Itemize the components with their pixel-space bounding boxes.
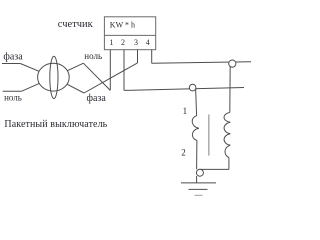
wire terminal 2 vertical [123, 50, 125, 91]
svg-text:1: 1 [183, 106, 188, 116]
wire фаза input horizontal [2, 63, 20, 65]
ground line 1 [181, 182, 216, 184]
ground line 2 [189, 188, 208, 190]
svg-text:счетчик: счетчик [58, 19, 94, 30]
svg-text:ноль: ноль [4, 93, 22, 103]
wire vertical from node to coil 2 [229, 64, 231, 112]
winding 1 (current coil) [192, 116, 199, 141]
wire terminal 3 vertical [137, 50, 139, 63]
wire bottom horizontal from terminal 2 [124, 88, 244, 91]
svg-text:2: 2 [181, 148, 186, 158]
node terminal bottom (clamp) [189, 84, 196, 91]
wire node to ground [196, 176, 198, 183]
wire фаза input diagonal [20, 64, 39, 72]
wire coil 1 to ground node [196, 140, 198, 169]
svg-text:фаза: фаза [87, 93, 107, 104]
svg-text:2: 2 [121, 38, 125, 47]
winding 2 (voltage coil) [224, 112, 230, 157]
transformer core bar [208, 115, 210, 156]
node ground junction [196, 169, 203, 176]
svg-text:KW * h: KW * h [110, 20, 135, 29]
meter box divider [104, 34, 155, 36]
wire vertical from node to coil 1 [196, 88, 197, 116]
wire ноль input diagonal [22, 83, 40, 91]
wire switch lower-right diagonal [67, 84, 84, 93]
wire switch upper-right diagonal [67, 63, 83, 70]
wire фаза bend to terminal 3 [84, 63, 138, 93]
svg-text:фаза: фаза [3, 51, 23, 62]
packet switch S1 handle [50, 56, 58, 98]
wire ноль bend to terminal 1 [83, 63, 110, 90]
svg-text:1: 1 [110, 38, 114, 47]
wire coil 2 bottom vertical [228, 158, 230, 170]
svg-text:ноль: ноль [84, 51, 102, 61]
node terminal top (clamp) [229, 60, 236, 67]
wire terminal 1 vertical [109, 50, 111, 91]
wire ноль input horizontal [3, 90, 22, 92]
packet switch S1 body [38, 63, 70, 91]
wire top horizontal to load [152, 62, 251, 64]
meter box U1 (kWh meter) [104, 17, 155, 50]
svg-text:Пакетный выключатель: Пакетный выключатель [4, 119, 107, 130]
ground line 3 [195, 194, 203, 196]
wire terminal 4 vertical [151, 50, 153, 64]
wire bottom horizontal node to coil 2 [200, 168, 229, 170]
svg-text:3: 3 [134, 38, 138, 47]
svg-text:4: 4 [146, 38, 150, 47]
